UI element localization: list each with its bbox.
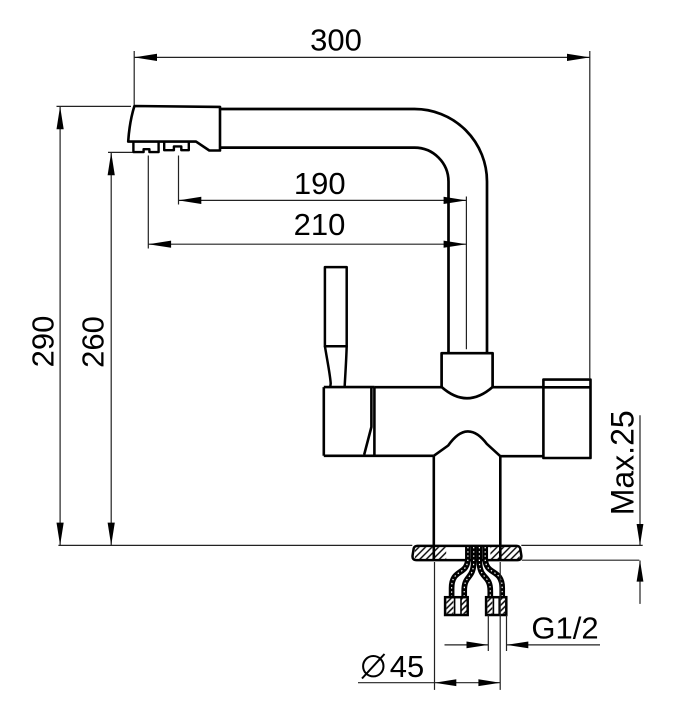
right hose nut	[486, 597, 506, 615]
dia45 right arrow	[478, 679, 500, 686]
svg-text:300: 300	[310, 22, 362, 57]
deck surface line right	[521, 544, 642, 546]
Max.25 dim line lower	[639, 561, 641, 604]
deck flange	[413, 546, 522, 560]
G1/2 right arrow (pointing left)	[507, 642, 529, 649]
dim 210 line	[148, 243, 466, 245]
dim 260 top arrow	[108, 152, 115, 175]
dim 190 right arrow	[444, 197, 467, 204]
left cap of body	[324, 387, 375, 456]
dim 290 vertical line	[59, 106, 61, 545]
svg-text:G1/2: G1/2	[531, 611, 598, 646]
dim 190 left arrow	[179, 197, 202, 204]
G1/2 right extension line	[506, 615, 508, 651]
dim 290 top arrow	[57, 106, 64, 129]
aerator outlet 1	[133, 142, 158, 153]
base column edges through flange	[434, 545, 501, 560]
deck underside line right	[522, 559, 640, 561]
dim 210 left arrow	[148, 241, 171, 248]
dim 260 top extension line	[108, 151, 133, 153]
left hose nut	[445, 597, 468, 615]
dia45 left arrow	[435, 679, 457, 686]
body bottom edges	[324, 454, 544, 457]
spout tube outer edge (top + bend + right side)	[220, 109, 487, 353]
label dia45: diameter symbol	[362, 654, 385, 679]
dim 260 bottom arrow	[108, 523, 115, 546]
spout centerline extension	[465, 197, 467, 350]
aerator 2 extension line	[178, 156, 180, 205]
G1/2 dim line right segment	[507, 644, 601, 646]
handle lever	[325, 267, 347, 387]
Max.25 dim line upper	[639, 415, 641, 545]
deck surface line left	[58, 544, 412, 546]
cap parting line	[364, 387, 371, 455]
dim 290 top extension line	[57, 105, 132, 107]
dim 300 left arrow	[134, 54, 157, 61]
arrowheads	[57, 54, 644, 686]
Max.25 down arrow	[637, 524, 644, 545]
dim 290 bottom arrow	[57, 523, 64, 546]
svg-text:Max.25: Max.25	[605, 410, 641, 515]
aerator 1 extension line	[147, 156, 149, 249]
dia45 left extension line	[434, 562, 436, 690]
right outlet block	[543, 380, 590, 458]
hose band 1 (outer left)	[452, 547, 468, 598]
hose band 2 (inner left)	[464, 547, 474, 598]
svg-text:260: 260	[75, 316, 110, 368]
body-to-column arch transition	[434, 431, 501, 456]
svg-text:290: 290	[25, 316, 60, 368]
spout head outline	[128, 106, 220, 151]
hose band 4 (outer right)	[485, 547, 502, 598]
spout tube inner edge (bottom + bend + left side)	[221, 148, 449, 354]
Max.25 up arrow	[637, 560, 644, 581]
dim 300 right arrow	[567, 54, 590, 61]
dim 210 right arrow	[444, 241, 467, 248]
svg-text:45: 45	[390, 649, 424, 684]
dim 260 vertical line	[110, 152, 112, 545]
dim 300 right extension line	[589, 51, 591, 379]
G1/2 left extension line	[487, 615, 489, 651]
thin construction / dimension lines	[57, 51, 643, 690]
svg-text:210: 210	[294, 207, 346, 242]
dim 300 left extension line	[133, 51, 135, 105]
spout socket connector on body	[442, 353, 493, 398]
svg-text:190: 190	[294, 166, 346, 201]
dim 300 line	[134, 56, 590, 58]
G1/2 left arrow (pointing right)	[467, 642, 489, 649]
base column	[434, 456, 501, 546]
dia45 dim line	[358, 682, 500, 684]
hose band 3 (inner right)	[479, 547, 490, 598]
dim 190 line	[179, 199, 467, 201]
dia45 right extension line	[499, 562, 501, 690]
G1/2 dim line left segment	[445, 644, 489, 646]
aerator outlet 2	[164, 142, 189, 151]
body left edge	[373, 387, 376, 456]
body top edges	[374, 386, 543, 389]
